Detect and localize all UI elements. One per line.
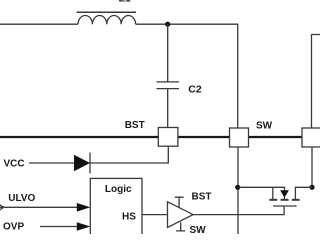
node: junction dot right — [309, 185, 314, 190]
svg-text:VCC: VCC — [4, 159, 25, 170]
MOSFET Q1 source contact — [269, 199, 277, 201]
capacitor C2 — [157, 82, 180, 89]
svg-text:SW: SW — [190, 225, 207, 234]
MOSFET Q1 body contact — [281, 199, 289, 201]
svg-text:BST: BST — [192, 192, 212, 203]
MOSFET Q1 gate bar — [273, 205, 297, 207]
logic box — [90, 178, 142, 240]
svg-text:Logic: Logic — [105, 184, 132, 195]
wire: SW dot to MOSFET source/body — [238, 187, 285, 190]
wire: top input to inductor — [0, 23, 78, 25]
input arrow OVP — [40, 226, 84, 228]
wire: MOSFET drain to right dot — [295, 187, 312, 199]
svg-text:C2: C2 — [188, 84, 202, 96]
input arrow ULVO — [0, 206, 84, 208]
wire: junction down to C2 — [167, 24, 169, 81]
diode cathode bar — [89, 153, 91, 174]
driver SW tap — [176, 222, 185, 231]
MOSFET Q1 body diode — [280, 190, 289, 197]
wire: top right corner into right pin box — [312, 35, 320, 129]
inductor core bar — [77, 11, 137, 13]
node: junction dot L1/C2 — [165, 22, 170, 27]
wire: C2 to BST pin box — [167, 89, 169, 128]
pin box BST — [158, 128, 178, 147]
pin box right (cut off) — [302, 128, 320, 147]
chevron at left edge of ULVO line — [0, 205, 4, 210]
svg-text:HS: HS — [122, 212, 136, 223]
wire: diode to BST pin box bottom — [90, 146, 168, 163]
MOSFET Q1 source stub — [272, 187, 274, 199]
inductor L1 — [78, 15, 136, 24]
svg-text:ULVO: ULVO — [8, 193, 35, 204]
driver U2 triangle — [168, 202, 194, 228]
thick bus wire SW-right box — [249, 136, 303, 138]
pin box SW — [230, 128, 249, 147]
wire: inductor to SW corner, down to SW pin box — [136, 24, 238, 128]
svg-text:OVP: OVP — [3, 222, 24, 233]
MOSFET Q1 drain contact — [292, 199, 300, 201]
driver BST supply tap — [175, 197, 184, 208]
wire: driver output / gate wire — [193, 206, 284, 215]
wire: SW net down from SW box — [237, 147, 239, 234]
diode D1 — [74, 155, 90, 171]
svg-text:L1: L1 — [119, 0, 131, 5]
svg-text:BST: BST — [125, 120, 145, 131]
wire: VCC to diode — [29, 162, 74, 164]
thick bus wire left of BST box — [0, 136, 158, 138]
wire: right box down — [311, 147, 313, 187]
thick bus wire BST-SW — [178, 136, 230, 138]
wire: HS output to driver — [142, 214, 168, 216]
MOSFET Q1 body stub — [284, 197, 286, 200]
svg-text:SW: SW — [256, 120, 273, 131]
node: junction dot on SW net — [235, 185, 240, 190]
